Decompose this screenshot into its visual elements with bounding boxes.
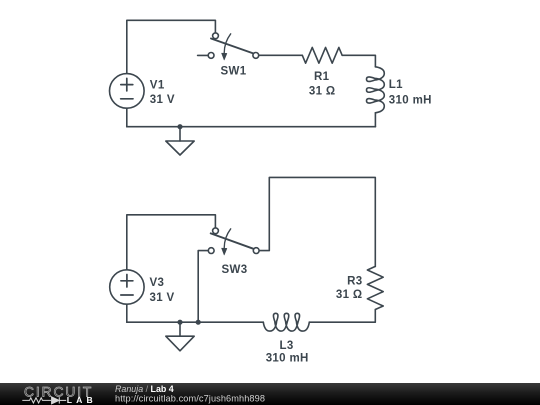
wire V1 bottom to ground node bbox=[126, 108, 128, 127]
inductor L3 bbox=[263, 313, 309, 331]
wire bottom rail of top circuit bbox=[127, 126, 376, 128]
wire L3 right lead to R3 bottom bbox=[309, 310, 375, 323]
wire SW3 right terminal up and over to R3 bbox=[259, 177, 375, 266]
resistor R1 bbox=[302, 47, 342, 63]
svg-text:V1: V1 bbox=[150, 80, 165, 92]
svg-text:http://circuitlab.com/c7jush6m: http://circuitlab.com/c7jush6mhh898 bbox=[115, 394, 265, 404]
switch SW1 arrow bbox=[224, 34, 231, 53]
svg-text:V3: V3 bbox=[150, 277, 165, 289]
switch SW3 arrow bbox=[224, 229, 231, 248]
inductor L1 bbox=[367, 67, 385, 113]
switch SW3 blade bbox=[211, 233, 254, 248]
svg-text:310 mH: 310 mH bbox=[266, 353, 309, 365]
ground top bbox=[179, 127, 181, 141]
svg-text:SW1: SW1 bbox=[221, 66, 247, 78]
wire SW1 left throw stub bbox=[198, 54, 209, 56]
wire bottom rail of bottom circuit bbox=[127, 321, 263, 323]
svg-text:L3: L3 bbox=[280, 340, 294, 352]
svg-text:R3: R3 bbox=[347, 275, 362, 287]
wire SW1 right terminal to R1 bbox=[259, 54, 303, 56]
switch SW1 blade bbox=[211, 39, 253, 54]
wire L1 bottom lead bbox=[374, 113, 376, 127]
node ground junction bottom bbox=[177, 320, 182, 325]
resistor R3 bbox=[367, 266, 383, 309]
switch SW1 pivot terminal bbox=[213, 33, 219, 39]
switch SW1 left throw terminal bbox=[208, 53, 214, 59]
wire bottom circuit: left loop V3 top to SW3 pivot bbox=[127, 215, 216, 270]
svg-text:310 mH: 310 mH bbox=[389, 94, 432, 106]
wire V3 bottom to rail bbox=[126, 304, 128, 322]
voltage source V3 bbox=[110, 270, 144, 304]
node SW3 throw junction bbox=[196, 320, 201, 325]
switch SW3 left throw terminal bbox=[208, 248, 214, 254]
wire top-left loop: V1 top to SW1 pivot bbox=[127, 20, 216, 73]
svg-text:R1: R1 bbox=[314, 71, 330, 83]
voltage source V1 bbox=[110, 74, 145, 109]
CircuitLab logo schematic line bbox=[22, 397, 66, 404]
svg-text:31 Ω: 31 Ω bbox=[336, 289, 363, 301]
switch SW3 right throw terminal bbox=[253, 248, 259, 254]
svg-text:31 V: 31 V bbox=[150, 292, 175, 304]
svg-text:Ranuja / Lab 4: Ranuja / Lab 4 bbox=[115, 384, 174, 394]
switch SW3 pivot terminal bbox=[213, 228, 219, 234]
svg-text:SW3: SW3 bbox=[222, 264, 248, 276]
switch SW1 right throw terminal bbox=[253, 53, 259, 59]
svg-text:31 V: 31 V bbox=[150, 94, 175, 106]
node ground junction top bbox=[177, 124, 182, 129]
wire SW3 left throw down to rail bbox=[198, 251, 208, 323]
svg-text:LAB: LAB bbox=[67, 395, 97, 405]
wire R1 to L1 top bbox=[342, 55, 375, 67]
svg-text:31 Ω: 31 Ω bbox=[309, 85, 336, 97]
ground bottom bbox=[179, 322, 181, 336]
svg-text:L1: L1 bbox=[389, 79, 403, 91]
